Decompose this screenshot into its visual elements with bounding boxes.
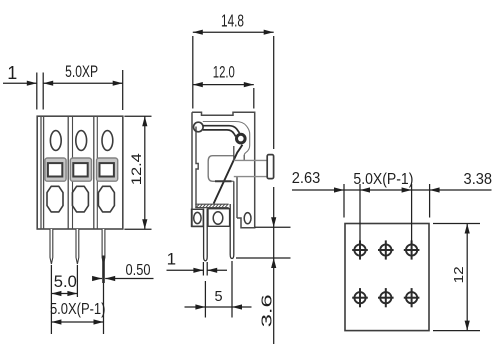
dim 12.4 line [144, 116, 146, 229]
arrow dim 3.6 bottom [271, 258, 276, 268]
screw slot inner cell 2 [73, 163, 87, 176]
arrow 5.0X(P-1) fp left [360, 187, 370, 192]
dim 5.0X(P-1) line [51, 321, 103, 323]
arrow 14.8 right [264, 30, 274, 35]
dim 5.0XP line [43, 82, 123, 84]
spring arm thick lower line [203, 130, 236, 137]
clamp spring diagonal [214, 145, 243, 204]
wire hole ellipse cell 1 [50, 131, 61, 151]
dim 12.0 ext right [253, 88, 255, 109]
dim 1 extension line right [42, 73, 44, 110]
dim 1 pin leader left [167, 269, 204, 271]
wire tube top line [234, 159, 268, 161]
footprint outline [345, 224, 429, 331]
side body outline [192, 112, 255, 228]
pin1 extension below [50, 265, 52, 334]
dim 5 line [185, 306, 252, 308]
funnel clamp dark bottom edge [215, 180, 232, 182]
channel wall above tube left [233, 146, 235, 160]
bottom cavity octagon cell 1 [47, 186, 63, 212]
pad row1 col1 [352, 240, 368, 259]
svg-text:1: 1 [7, 63, 17, 83]
arrow 12 top [465, 224, 470, 234]
pad row1 col3 [404, 240, 420, 259]
dim 14.8 line [193, 31, 274, 33]
dim 5.0 line [51, 293, 77, 295]
spring arm pocket thin outline [203, 122, 250, 161]
svg-text:0.50: 0.50 [126, 262, 151, 279]
pin3 extension below thin [103, 283, 105, 334]
dim 0.50 leader right [105, 278, 153, 280]
dim 12 ext bottom [433, 330, 480, 332]
left foot ellipse [194, 212, 201, 223]
screw slot outer cell 3 [97, 158, 118, 181]
arrow 5.0XP right [113, 81, 123, 86]
dim 1 pin ext right [206, 262, 208, 276]
arrow pin width right [207, 268, 217, 273]
dim 1 extension line left [36, 73, 38, 110]
wire tube bottom line [234, 176, 268, 178]
wire funnel capsule [208, 156, 234, 182]
fp ext square right [429, 184, 431, 218]
screw slot outer cell 1 [45, 158, 66, 181]
left foot box [192, 209, 204, 226]
pad row2 col1 [352, 288, 368, 307]
pin2 extension below [76, 265, 78, 297]
cell divider 2 line a [93, 117, 95, 229]
dim 1 leader line [3, 82, 37, 84]
pin2 slot right wall [236, 177, 238, 218]
arrow dim 5 right [232, 304, 242, 309]
cell divider 1 line a [67, 117, 69, 229]
dim 12 ext top [433, 223, 480, 225]
cell divider 2 line b [96, 117, 98, 229]
arrow dim 5 left [195, 304, 205, 309]
arrow pin width left [193, 268, 203, 273]
dim 12.0 line [193, 84, 254, 86]
dim 1 pin leader right [207, 269, 227, 271]
dim 3.6 ext bottom [236, 257, 291, 259]
arrow 12 bottom [465, 321, 470, 331]
screw slot outer cell 2 [70, 158, 91, 181]
screw ring [237, 134, 246, 143]
dim 12 line [466, 224, 468, 331]
arrow 5.0X(P-1) right [94, 319, 104, 324]
svg-text:14.8: 14.8 [221, 11, 244, 31]
channel wall above tube right [243, 155, 245, 160]
svg-text:12: 12 [452, 266, 466, 283]
hatch strip ticks [196, 204, 228, 207]
pad row2 col2 [378, 288, 394, 307]
middle foot ellipse [213, 212, 223, 225]
dim 5 ext left [204, 281, 206, 318]
hinge circle top-left [194, 122, 204, 132]
svg-text:5.0: 5.0 [54, 272, 77, 291]
wire hole ellipse cell 3 [102, 131, 113, 151]
arrow 0.50 right [105, 276, 115, 281]
dim 14.8 ext right [273, 36, 275, 149]
arrow dim1 right / 5.0XP left [43, 81, 53, 86]
wire hole ellipse cell 2 [76, 131, 87, 151]
svg-text:5.0XP: 5.0XP [65, 62, 98, 81]
pin 2 front [76, 229, 79, 264]
arrow dim1 left [27, 81, 37, 86]
svg-text:5: 5 [214, 289, 222, 305]
arrow 5.0X(P-1) fp right [402, 187, 412, 192]
left end wall inner line b [43, 117, 45, 229]
pad row2 col3 [404, 288, 420, 307]
arrow 3.38 left [430, 187, 440, 192]
svg-text:5.0X(P-1): 5.0X(P-1) [50, 301, 106, 318]
hatch strip bottom line [195, 207, 228, 209]
dim 14.8 ext left [192, 36, 194, 109]
screw slot inner cell 3 [100, 163, 114, 176]
cell divider 1 line b [72, 117, 74, 229]
dim 5.0XP extension line right [122, 70, 124, 110]
fp ext pad col3 [411, 184, 413, 244]
svg-text:1: 1 [167, 250, 176, 269]
svg-text:3.38: 3.38 [464, 171, 493, 188]
fp top dim line [292, 189, 492, 191]
side pin 1 [204, 208, 208, 260]
arrow 2.63 right [334, 187, 344, 192]
screw slot inner cell 1 [48, 163, 62, 176]
terminal block body front outline [37, 116, 123, 229]
pad row1 col2 [378, 240, 394, 259]
arrow 5.0 right [67, 291, 77, 296]
arrow dim 3.6 top [271, 217, 276, 227]
wire tube end cap [267, 155, 273, 179]
arrow 5.0 left [51, 291, 61, 296]
svg-text:12.0: 12.0 [213, 64, 235, 82]
arrow 0.50 left [92, 276, 102, 281]
dim 3.6 ext top [255, 226, 291, 228]
bottom cavity octagon cell 2 [72, 186, 88, 212]
pin3 extension thick segment [102, 256, 105, 284]
left end wall inner line a [40, 117, 42, 229]
arrow 12.0 left [193, 82, 203, 87]
bottom cavity octagon cell 3 [98, 186, 114, 212]
arrow 5.0X(P-1) left [51, 319, 61, 324]
arrow 12.4 bottom [142, 219, 147, 229]
svg-text:3.6: 3.6 [259, 294, 276, 327]
right foot ellipse [244, 213, 251, 224]
dim 5 ext right [231, 261, 233, 318]
dim 12.4 extension top [124, 115, 151, 117]
pin 3 front [102, 229, 105, 264]
pin 1 front [50, 229, 53, 264]
side inner left wall [196, 127, 198, 208]
middle foot box [208, 209, 230, 227]
dim 0.50 leader left [95, 278, 102, 280]
dim 3.6 line [273, 187, 275, 344]
arrow 12.4 top [142, 116, 147, 126]
arrow 12.0 right [244, 82, 254, 87]
svg-text:12.4: 12.4 [129, 153, 144, 186]
channel left wall below funnel [233, 181, 235, 204]
fp ext pad col1 [359, 184, 361, 244]
fp ext square left [343, 184, 345, 218]
dim 12.4 extension bottom [124, 228, 151, 230]
dim 1 pin ext left [202, 262, 204, 276]
arrow 14.8 left [193, 30, 203, 35]
svg-text:5.0X(P-1): 5.0X(P-1) [353, 171, 413, 188]
svg-text:2.63: 2.63 [292, 170, 321, 187]
spring arm thick upper line [203, 126, 240, 133]
hatch strip top line [195, 203, 228, 205]
side pin 2 [230, 204, 234, 259]
